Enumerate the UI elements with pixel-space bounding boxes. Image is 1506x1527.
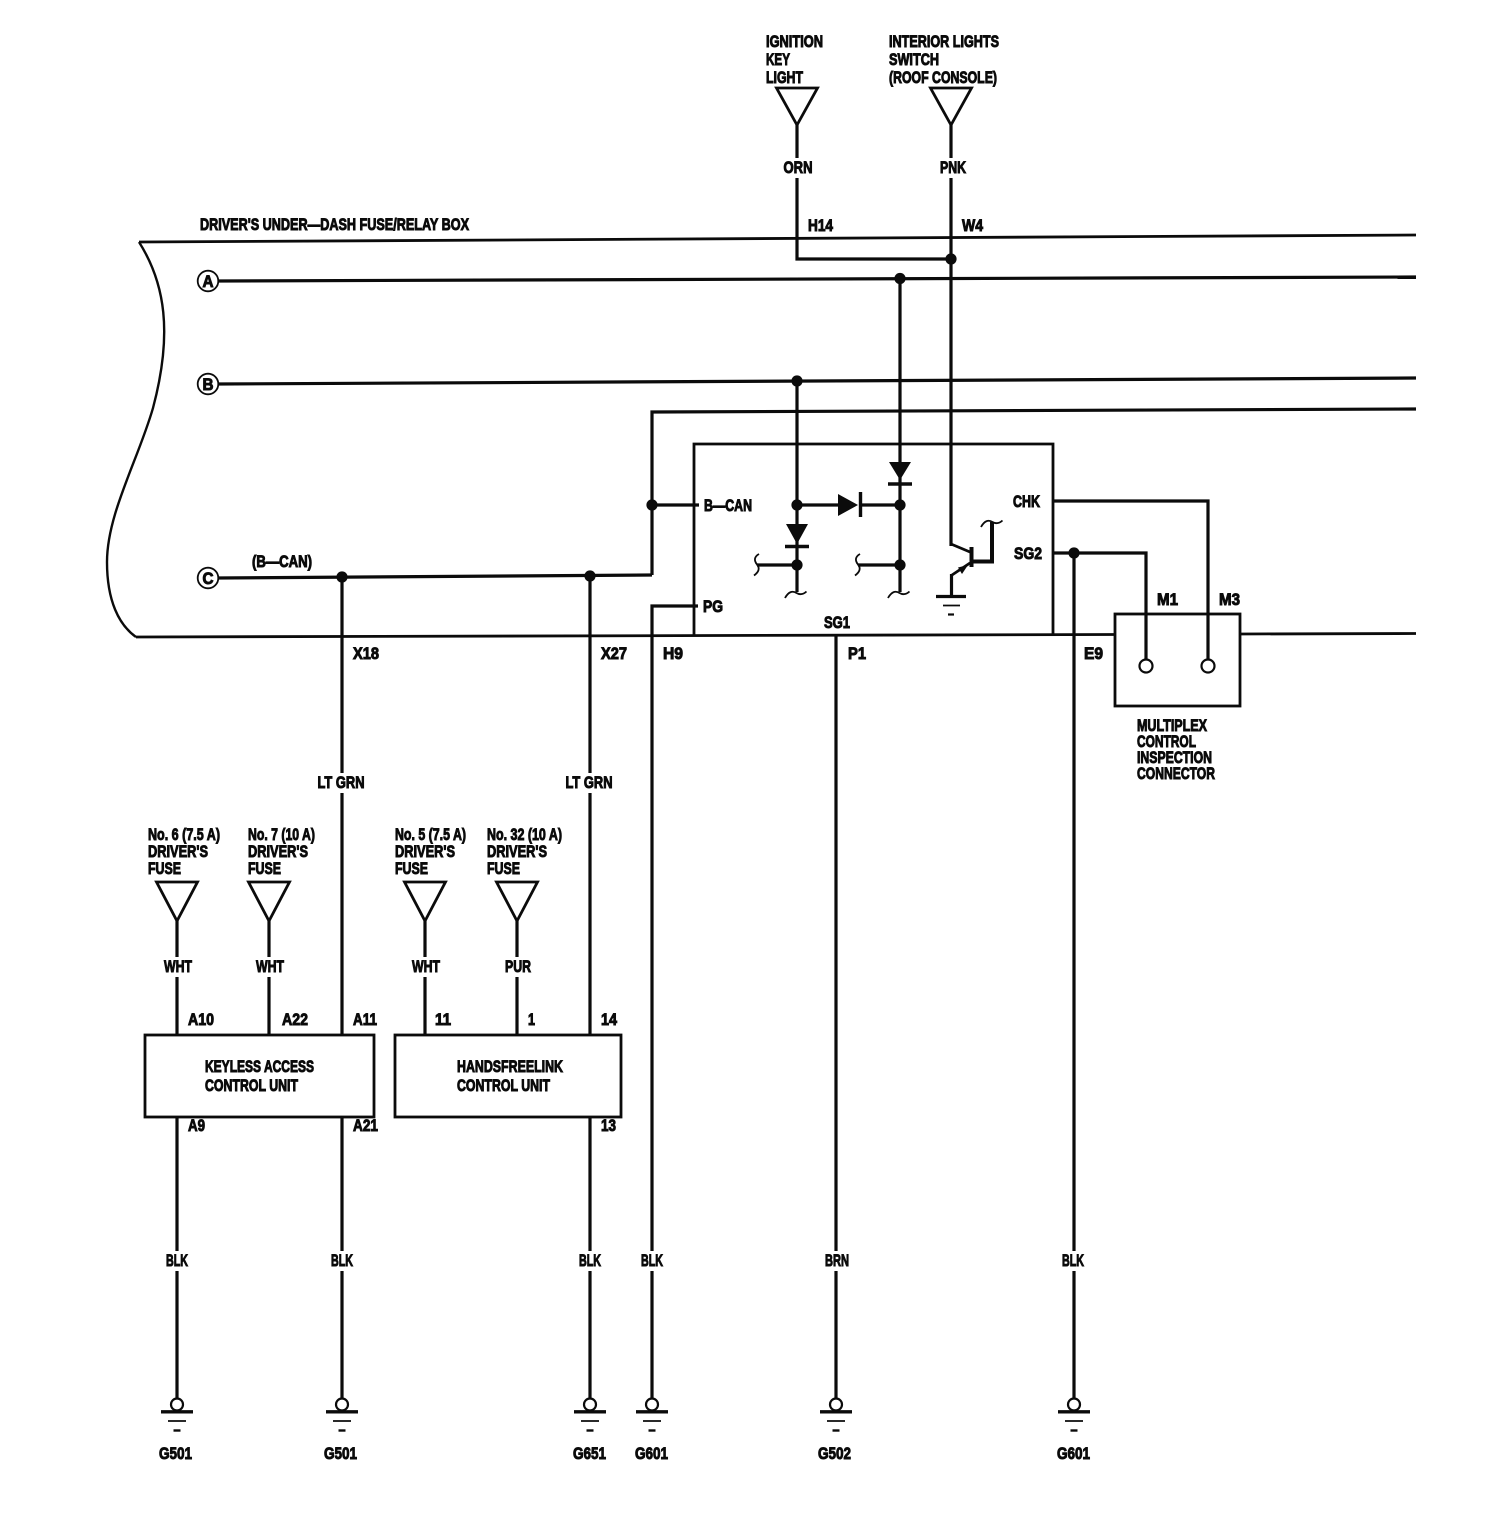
- ground G601 (E9): [1057, 1399, 1090, 1464]
- svg-text:H14: H14: [808, 216, 833, 235]
- fuse No. 5 driver's fuse: [395, 825, 466, 921]
- diode D2 (right, on B-CAN line): [797, 492, 900, 517]
- svg-text:SG2: SG2: [1014, 544, 1042, 563]
- svg-text:BRN: BRN: [825, 1251, 849, 1270]
- wire: B-CAN riser and upper horizontal run: [652, 409, 1416, 575]
- node: branch 2 lower junction: [858, 559, 906, 570]
- svg-text:P1: P1: [848, 644, 866, 663]
- svg-text:14: 14: [601, 1010, 617, 1029]
- wire: branch 2 vertical (from bus A into box): [894, 273, 905, 592]
- svg-text:M1: M1: [1157, 590, 1178, 609]
- svg-text:G601: G601: [1057, 1444, 1090, 1463]
- wire P1: SG1 to ground G502: [822, 636, 866, 1398]
- svg-text:11: 11: [435, 1010, 451, 1029]
- wire X18: line C to keyless unit pin A11: [315, 571, 380, 1035]
- wire break mark (branch 2 bottom): [888, 592, 910, 599]
- wire A9: keyless unit to ground G501: [163, 1116, 205, 1398]
- svg-text:1: 1: [528, 1010, 535, 1029]
- fuse No. 6 driver's fuse: [148, 825, 220, 921]
- svg-text:X18: X18: [353, 644, 379, 663]
- node: branch 1 at B-CAN line: [791, 499, 802, 510]
- svg-text:LT GRN: LT GRN: [318, 773, 365, 792]
- svg-text:(ROOF CONSOLE): (ROOF CONSOLE): [889, 68, 997, 87]
- driver's under-dash fuse/relay box outline: [107, 215, 1416, 637]
- svg-text:M3: M3: [1219, 590, 1240, 609]
- ground G501 (A9): [159, 1399, 193, 1464]
- junction node: ORN joins PNK wire: [945, 253, 956, 264]
- svg-text:B: B: [203, 375, 214, 394]
- transistor Q1 (PNP, in box): [951, 522, 992, 596]
- svg-text:B—CAN: B—CAN: [704, 496, 752, 515]
- svg-text:G601: G601: [635, 1444, 668, 1463]
- svg-text:C: C: [203, 569, 214, 588]
- svg-text:A: A: [203, 272, 214, 291]
- wire stub to B-CAN pin of control box: [652, 503, 699, 506]
- wire WHT from fuse to pin 11: [409, 921, 451, 1035]
- svg-text:WHT: WHT: [164, 957, 192, 976]
- svg-text:ORN: ORN: [784, 158, 813, 177]
- svg-text:BLK: BLK: [166, 1251, 188, 1270]
- node C (B-CAN bus line): [198, 552, 652, 588]
- ground (inside box, transistor emitter): [936, 597, 966, 615]
- fuse No. 32 driver's fuse: [487, 825, 562, 921]
- svg-text:PNK: PNK: [940, 158, 967, 177]
- wire ORN from ignition key light to node W4 (pin H14): [781, 125, 952, 259]
- wire PNK from interior lights switch (pin W4) down to transistor base: [937, 125, 983, 546]
- svg-text:G501: G501: [324, 1444, 357, 1463]
- node: branch 1 lower junction: [757, 559, 803, 570]
- wire A21: keyless unit to ground G501: [328, 1116, 378, 1398]
- wire: SG2 pin to connector M1: [1053, 547, 1146, 660]
- wire E9: SG2 node to ground G601: [1059, 553, 1103, 1398]
- svg-text:CONTROL UNIT: CONTROL UNIT: [457, 1076, 550, 1095]
- svg-text:E9: E9: [1084, 644, 1103, 663]
- svg-text:BLK: BLK: [1062, 1251, 1084, 1270]
- ground G501 (A21): [324, 1399, 358, 1464]
- svg-text:A21: A21: [353, 1116, 378, 1135]
- svg-text:CONNECTOR: CONNECTOR: [1137, 764, 1215, 783]
- ground G601 (H9): [635, 1399, 668, 1464]
- svg-text:IGNITION: IGNITION: [766, 32, 823, 51]
- wire PUR from fuse to pin 1: [502, 921, 535, 1035]
- handsfreelink control unit: [395, 1035, 621, 1117]
- svg-text:BLK: BLK: [579, 1251, 601, 1270]
- wire break mark (branch 1 left): [754, 554, 759, 576]
- wire: PG pin to H9: [652, 606, 698, 1398]
- control box U1 (fuse/relay box internal circuit): [694, 444, 1053, 636]
- wire break mark (branch 1 bottom): [785, 592, 807, 599]
- wire 13: handsfreelink unit to ground G651: [576, 1116, 616, 1398]
- svg-text:G502: G502: [818, 1444, 851, 1463]
- svg-text:SG1: SG1: [824, 613, 850, 632]
- svg-text:FUSE: FUSE: [148, 859, 181, 878]
- svg-text:KEY: KEY: [766, 50, 790, 69]
- svg-text:H9: H9: [663, 644, 683, 663]
- svg-text:G501: G501: [159, 1444, 192, 1463]
- svg-text:(B—CAN): (B—CAN): [252, 552, 312, 571]
- fuse No. 7 driver's fuse: [248, 825, 315, 921]
- ground G502: [818, 1399, 852, 1464]
- svg-text:A11: A11: [353, 1010, 377, 1029]
- multiplex control inspection connector: [1115, 590, 1240, 783]
- wire H9 lower: BLK to ground G601: [638, 1251, 666, 1271]
- keyless access control unit: [145, 1035, 374, 1117]
- diode D3 (down, branch 2): [888, 462, 912, 484]
- svg-text:FUSE: FUSE: [395, 859, 428, 878]
- node: junction on riser at B-CAN pin: [646, 499, 657, 510]
- svg-text:CHK: CHK: [1013, 492, 1041, 511]
- svg-text:SWITCH: SWITCH: [889, 50, 939, 69]
- wire: CHK pin to connector M3: [1053, 501, 1208, 660]
- svg-text:FUSE: FUSE: [248, 859, 281, 878]
- node B (bus line B): [198, 374, 1416, 395]
- diode D1 (down, branch 1): [785, 524, 809, 547]
- svg-text:BLK: BLK: [641, 1251, 663, 1270]
- svg-text:WHT: WHT: [256, 957, 284, 976]
- svg-text:HANDSFREELINK: HANDSFREELINK: [457, 1057, 564, 1076]
- svg-text:PG: PG: [703, 597, 723, 616]
- fuse symbol: ignition key light: [766, 32, 823, 125]
- svg-text:WHT: WHT: [412, 957, 440, 976]
- svg-text:FUSE: FUSE: [487, 859, 520, 878]
- wire break mark (collector top): [981, 521, 1003, 528]
- svg-text:A22: A22: [282, 1010, 308, 1029]
- wire X27: line C to handsfreelink pin 14: [563, 570, 628, 1035]
- svg-text:13: 13: [601, 1116, 616, 1135]
- svg-text:PUR: PUR: [505, 957, 531, 976]
- svg-text:INTERIOR LIGHTS: INTERIOR LIGHTS: [889, 32, 999, 51]
- svg-text:CONTROL UNIT: CONTROL UNIT: [205, 1076, 298, 1095]
- svg-text:G651: G651: [573, 1444, 606, 1463]
- svg-text:DRIVER'S UNDER—DASH FUSE/RELAY: DRIVER'S UNDER—DASH FUSE/RELAY BOX: [200, 215, 469, 234]
- wire WHT from fuse to pin A22: [253, 921, 308, 1035]
- ground G651: [573, 1399, 606, 1464]
- node: branch 2 at diode D2 cathode: [894, 499, 905, 510]
- svg-text:A10: A10: [188, 1010, 214, 1029]
- svg-text:LT GRN: LT GRN: [566, 773, 613, 792]
- fuse symbol: interior lights switch (roof console): [889, 32, 999, 125]
- wire break mark (branch 2 left): [855, 554, 860, 576]
- wire: branch 1 vertical (from bus B into box): [791, 375, 802, 592]
- svg-text:A9: A9: [188, 1116, 205, 1135]
- svg-text:W4: W4: [962, 216, 983, 235]
- node A (bus line A): [198, 271, 1416, 292]
- svg-text:X27: X27: [601, 644, 627, 663]
- svg-text:KEYLESS ACCESS: KEYLESS ACCESS: [205, 1057, 314, 1076]
- svg-text:LIGHT: LIGHT: [766, 68, 803, 87]
- svg-text:BLK: BLK: [331, 1251, 353, 1270]
- wire WHT from fuse to pin A10: [161, 921, 214, 1035]
